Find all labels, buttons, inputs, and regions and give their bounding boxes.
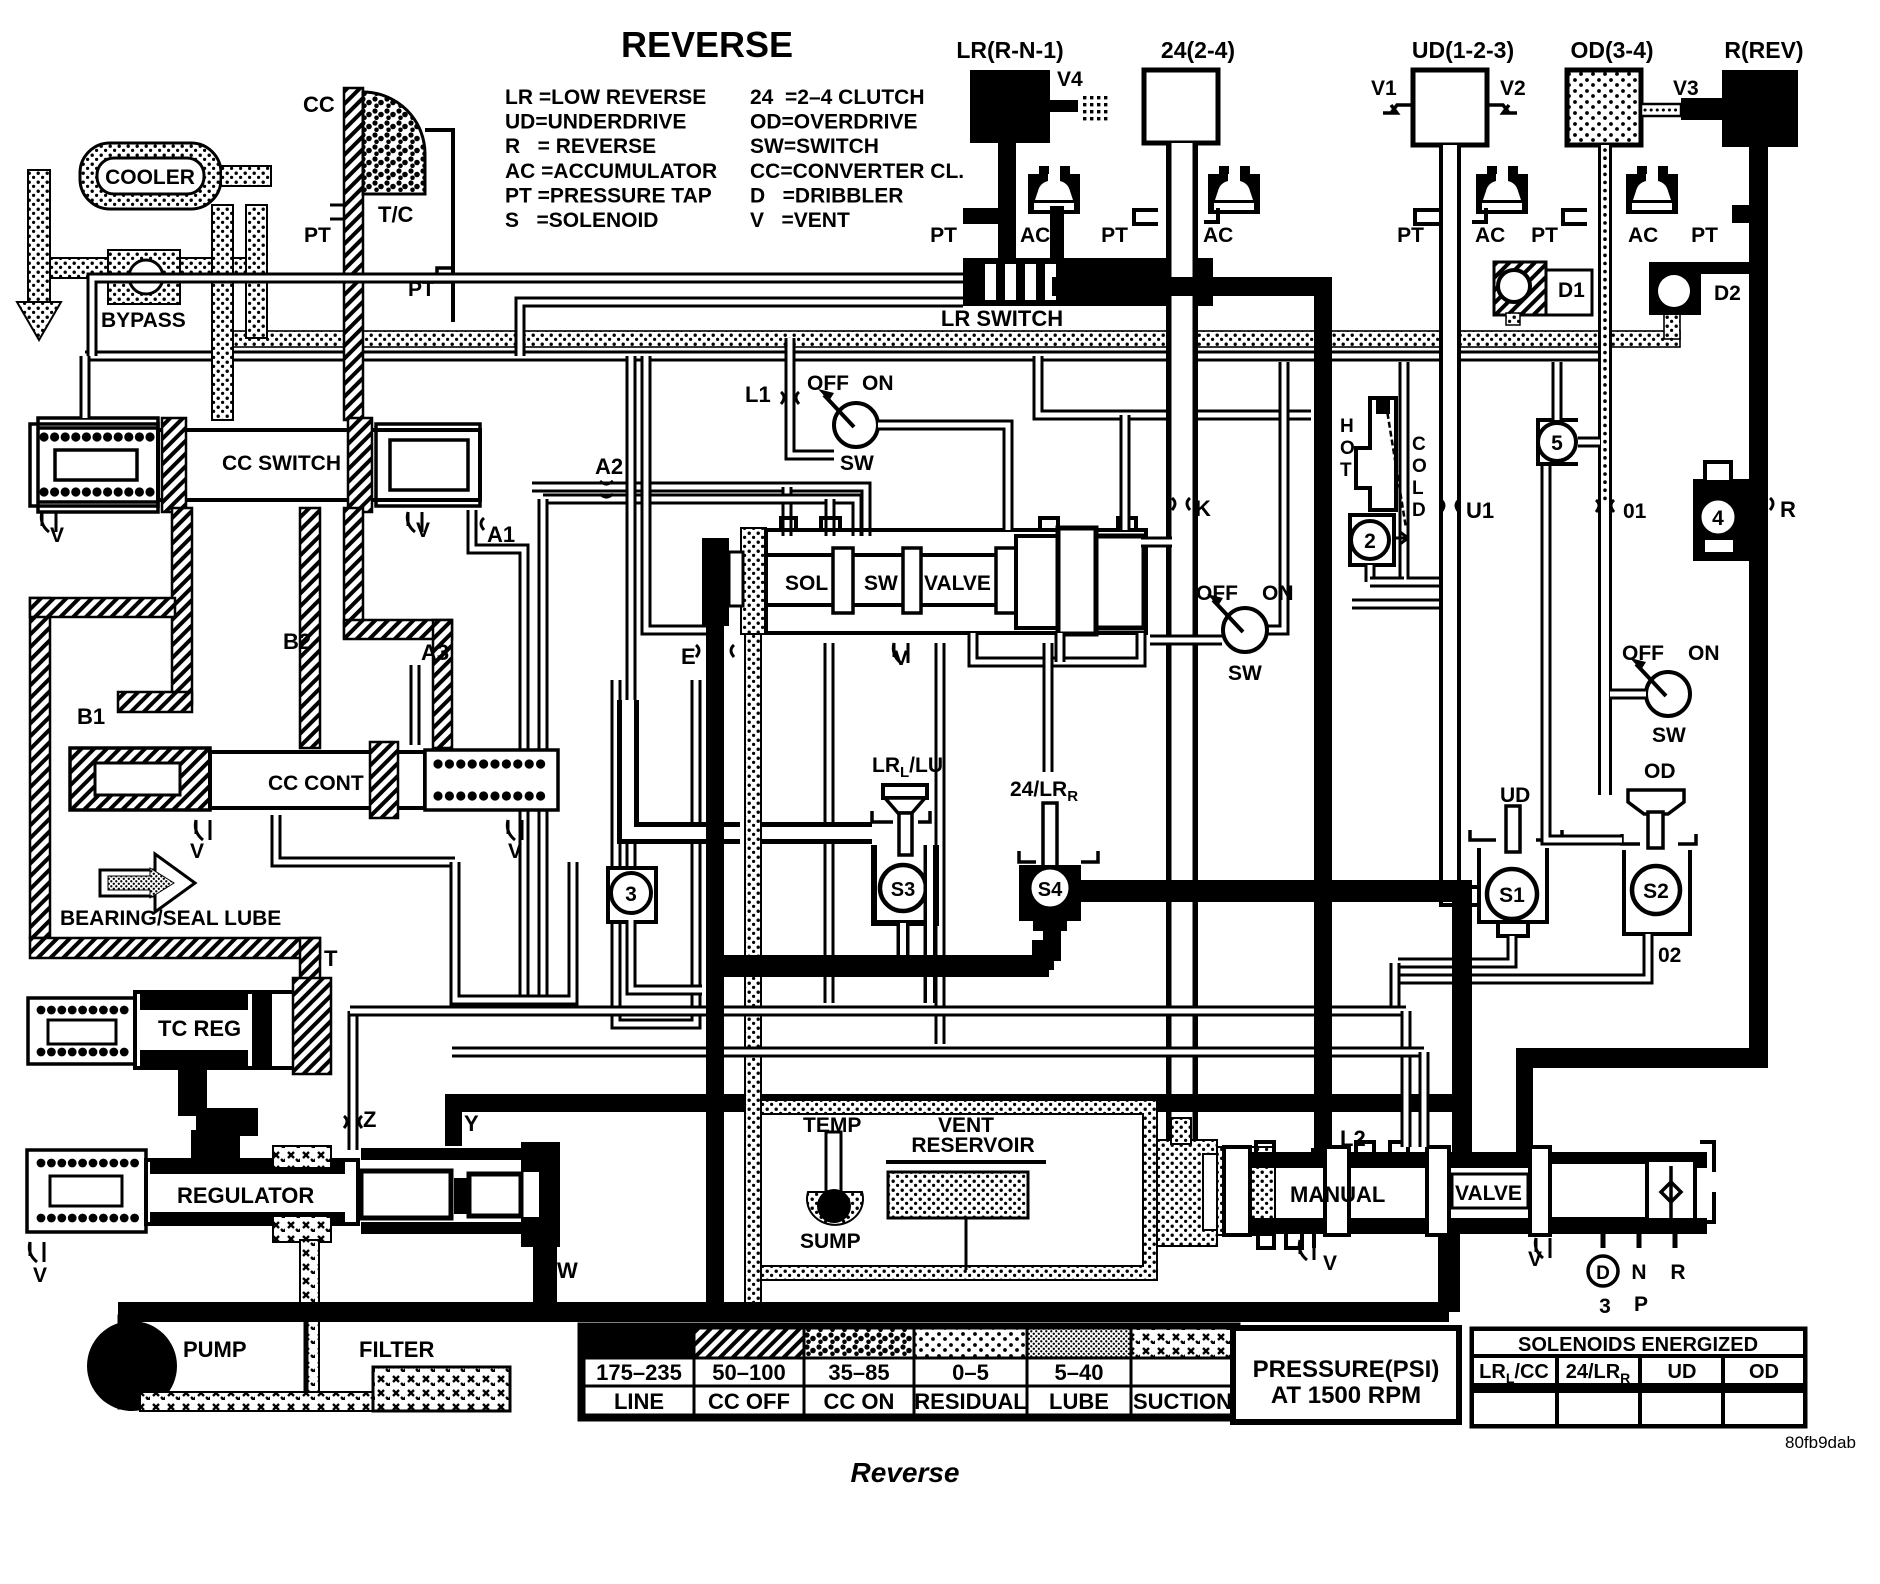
wire main line thin channel H1	[85, 351, 1609, 362]
manual valve bottom vents	[1258, 1234, 1314, 1248]
stipple vertical line (converter feed)	[741, 528, 766, 634]
svg-text:01: 01	[1623, 500, 1647, 523]
stipple elbow to D2	[1664, 313, 1680, 339]
svg-text:CC CONT: CC CONT	[268, 772, 364, 795]
svg-text:V: V	[416, 519, 430, 542]
svg-text:T: T	[324, 946, 338, 971]
svg-text:R = REVERSE: R = REVERSE	[505, 135, 656, 158]
regulator suction x-ports	[273, 1146, 331, 1168]
svg-text:S2: S2	[1643, 880, 1669, 903]
svg-text:E: E	[681, 644, 696, 669]
svg-text:RESIDUAL: RESIDUAL	[914, 1389, 1026, 1414]
svg-text:PT: PT	[1691, 224, 1718, 247]
wire S4 to manual valve	[1078, 880, 1462, 902]
svg-text:02: 02	[1658, 944, 1681, 967]
svg-text:5–40: 5–40	[1055, 1360, 1104, 1385]
wire left end channel	[80, 356, 91, 418]
port 5 circled	[1538, 420, 1578, 464]
svg-text:V =VENT: V =VENT	[750, 209, 850, 232]
svg-text:ON: ON	[1688, 642, 1720, 665]
valve MANUAL VALVE	[1217, 1147, 1275, 1235]
svg-text:PRESSURE(PSI): PRESSURE(PSI)	[1253, 1356, 1440, 1383]
wire channel H2	[1038, 356, 1311, 415]
svg-text:2: 2	[1364, 530, 1376, 553]
vent V (CC CONT left)	[195, 820, 210, 840]
suction pipe vertical	[300, 1240, 319, 1398]
svg-text:OD=OVERDRIVE: OD=OVERDRIVE	[750, 111, 917, 134]
solenoid plunger	[729, 552, 743, 606]
hatch pipe to CC CONT	[300, 508, 320, 748]
svg-text:50–100: 50–100	[712, 1360, 785, 1385]
pump	[120, 1317, 306, 1407]
gear positions D N R 3 P L	[1603, 1228, 1675, 1248]
accumulator symbol	[1476, 166, 1528, 214]
sump right stipple arm	[1157, 1140, 1217, 1246]
svg-text:PT: PT	[1397, 224, 1424, 247]
wire LR stem thick	[998, 143, 1016, 268]
svg-text:LR(R-N-1): LR(R-N-1)	[956, 37, 1063, 63]
node Y leg	[445, 1094, 462, 1146]
svg-text:CC ON: CC ON	[824, 1389, 895, 1414]
cooler pipe right vertical stipples	[212, 205, 233, 420]
wire regulator feed Y horizontal	[449, 1094, 1460, 1112]
svg-text:3: 3	[625, 883, 637, 906]
vent V (regulator)	[29, 1242, 44, 1262]
svg-text:FILTER: FILTER	[359, 1337, 434, 1362]
hatch pipe to B1	[172, 508, 192, 704]
svg-text:4: 4	[1712, 507, 1724, 530]
cooler	[80, 143, 221, 209]
valve CC CONT	[70, 748, 210, 810]
svg-text:SUCTION: SUCTION	[1133, 1389, 1232, 1414]
svg-text:S1: S1	[1499, 884, 1525, 907]
hatch pipe left tall	[30, 598, 50, 938]
svg-text:35–85: 35–85	[828, 1360, 889, 1385]
svg-text:CC=CONVERTER CL.: CC=CONVERTER CL.	[750, 160, 964, 183]
svg-text:ON: ON	[1262, 582, 1294, 605]
svg-text:LRL/CC: LRL/CC	[1479, 1361, 1549, 1386]
svg-text:SW: SW	[1228, 662, 1262, 685]
svg-text:PT: PT	[930, 224, 957, 247]
svg-text:W: W	[557, 1258, 578, 1283]
svg-text:AC: AC	[1628, 224, 1658, 247]
port 2 circled	[1350, 515, 1394, 565]
wire CC CONT out channel	[276, 815, 455, 862]
svg-text:OD: OD	[1749, 1361, 1779, 1383]
wire AC to LR switch connector	[1050, 206, 1064, 264]
svg-text:BEARING/SEAL LUBE: BEARING/SEAL LUBE	[60, 907, 281, 930]
accumulator symbol	[1208, 166, 1260, 214]
svg-text:LUBE: LUBE	[1049, 1389, 1109, 1414]
pressure tap PT (OD)	[1563, 210, 1587, 224]
cooler pipe left vertical stipple	[28, 170, 50, 302]
svg-text:Z: Z	[363, 1107, 376, 1132]
wire R line elbow to manual valve	[1516, 1048, 1768, 1068]
svg-text:PUMP: PUMP	[183, 1337, 247, 1362]
svg-text:A1: A1	[487, 522, 515, 547]
svg-text:S4: S4	[1038, 879, 1063, 901]
pressure legend table	[580, 1325, 1238, 1419]
svg-text:SW=SWITCH: SW=SWITCH	[750, 135, 879, 158]
svg-text:OD(3-4): OD(3-4)	[1570, 37, 1653, 63]
wire riser to H2	[1120, 415, 1131, 530]
pressure tap PT (24)	[1134, 210, 1158, 224]
svg-text:REGULATOR: REGULATOR	[177, 1183, 314, 1208]
wire channel to LR switch lower	[520, 302, 963, 356]
svg-text:TC REG: TC REG	[158, 1016, 241, 1041]
port 4 circled black box	[1693, 479, 1768, 561]
lube stipple main line	[212, 331, 1680, 347]
pressure tap PT (R)	[1732, 205, 1750, 223]
svg-text:REVERSE: REVERSE	[621, 24, 793, 65]
svg-text:SW: SW	[864, 572, 898, 595]
vent V (CC SWITCH left)	[41, 512, 56, 532]
svg-text:OD: OD	[1644, 760, 1676, 783]
T/C outline and PT taps	[425, 130, 453, 322]
thermal valve HOT COLD	[1356, 398, 1396, 510]
svg-text:24(2-4): 24(2-4)	[1161, 37, 1235, 63]
wire E bar and vertical	[702, 538, 729, 626]
wire thick vertical main right	[1314, 277, 1332, 1155]
wire S3 feed channels	[628, 700, 740, 833]
svg-text:3: 3	[1599, 1295, 1611, 1318]
svg-text:K: K	[1195, 496, 1211, 521]
wire UD stem channel	[1450, 145, 1481, 896]
svg-text:UD: UD	[1500, 784, 1530, 807]
svg-text:UD=UNDERDRIVE: UD=UNDERDRIVE	[505, 111, 686, 134]
suction pipe horizontal	[140, 1392, 380, 1411]
svg-text:RESERVOIR: RESERVOIR	[911, 1134, 1034, 1157]
wire line pressure from LR switch to right	[1052, 277, 1332, 296]
svg-text:R(REV): R(REV)	[1724, 37, 1803, 63]
svg-text:PT: PT	[304, 224, 331, 247]
pressure tap PT (LR)	[963, 208, 1015, 224]
svg-text:R: R	[1780, 497, 1796, 522]
hatch pipe to T	[30, 938, 320, 958]
svg-text:D =DRIBBLER: D =DRIBBLER	[750, 184, 903, 207]
pressure tap PT (UD)	[1415, 210, 1439, 224]
svg-text:B2: B2	[283, 629, 311, 654]
valve REGULATOR	[27, 1150, 146, 1232]
svg-text:Y: Y	[464, 1111, 479, 1136]
wire A2 horizontal channels	[532, 487, 866, 536]
svg-text:A2: A2	[595, 454, 623, 479]
wire S2 feed from dial	[1546, 462, 1622, 840]
svg-text:UD: UD	[1668, 1361, 1697, 1383]
wire channel to LR switch upper	[92, 278, 963, 356]
svg-text:C: C	[1412, 434, 1426, 455]
svg-text:A3: A3	[421, 640, 449, 665]
svg-text:0–5: 0–5	[952, 1360, 989, 1385]
solenoids energized table	[1472, 1329, 1805, 1426]
accumulator symbol	[1028, 166, 1080, 214]
wire S4 feed channel	[1043, 643, 1054, 772]
bypass line stipple	[50, 258, 262, 278]
svg-text:5: 5	[1551, 432, 1563, 455]
torque converter T/C	[363, 92, 425, 194]
svg-text:V: V	[50, 524, 64, 547]
svg-text:O: O	[1340, 438, 1355, 459]
svg-text:O: O	[1412, 456, 1427, 477]
svg-text:V1: V1	[1371, 77, 1397, 100]
wire channel H3 right	[1141, 537, 1172, 548]
svg-text:PT: PT	[1101, 224, 1128, 247]
pressure psi box	[1233, 1328, 1459, 1422]
svg-text:LINE: LINE	[614, 1389, 664, 1414]
wire OD stem dotted channel	[1598, 145, 1612, 505]
dribbler D1	[1494, 262, 1546, 315]
svg-text:S3: S3	[891, 879, 915, 901]
svg-text:SOLENOIDS ENERGIZED: SOLENOIDS ENERGIZED	[1518, 1334, 1758, 1356]
vent V (sol valve)	[893, 643, 908, 663]
svg-text:MANUAL: MANUAL	[1290, 1182, 1385, 1207]
svg-text:V: V	[1528, 1248, 1542, 1271]
svg-text:VALVE: VALVE	[1455, 1182, 1522, 1205]
wire S4 to E vertical	[709, 955, 1049, 977]
svg-text:PT =PRESSURE TAP: PT =PRESSURE TAP	[505, 184, 712, 207]
svg-text:LR =LOW REVERSE: LR =LOW REVERSE	[505, 86, 706, 109]
valve under loop channel	[973, 633, 1141, 662]
svg-text:V2: V2	[1500, 77, 1526, 100]
svg-text:U1: U1	[1466, 498, 1494, 523]
wire A1 channel	[472, 510, 524, 1000]
vent V (CC CONT right)	[507, 820, 522, 840]
port 3 circled	[608, 868, 656, 922]
valve right spool lands	[1016, 536, 1058, 628]
svg-text:LR SWITCH: LR SWITCH	[941, 306, 1063, 331]
svg-text:SW: SW	[1652, 724, 1686, 747]
svg-text:CC: CC	[303, 92, 335, 117]
wire line pressure bus bottom	[118, 1302, 1449, 1322]
wire D2 to R line	[1701, 262, 1767, 274]
switch LR SWITCH	[963, 258, 1213, 306]
svg-text:80fb9dab: 80fb9dab	[1785, 1433, 1856, 1452]
sump reservoir box stipple border	[747, 1100, 1157, 1280]
svg-text:R: R	[1670, 1261, 1685, 1284]
svg-text:CC SWITCH: CC SWITCH	[222, 452, 341, 475]
svg-text:T: T	[1340, 460, 1352, 481]
svg-text:UD(1-2-3): UD(1-2-3)	[1412, 37, 1514, 63]
switch SW dial 2 with OFF ON	[1268, 362, 1284, 630]
svg-text:175–235: 175–235	[596, 1360, 682, 1385]
wire 24 stem channel	[1166, 143, 1198, 1147]
svg-text:AT 1500 RPM: AT 1500 RPM	[1271, 1382, 1421, 1409]
regulator boost section	[361, 1171, 451, 1218]
svg-text:24 =2–4 CLUTCH: 24 =2–4 CLUTCH	[750, 86, 924, 109]
svg-text:L2: L2	[1340, 1126, 1366, 1151]
svg-text:D1: D1	[1558, 279, 1585, 302]
svg-text:SW: SW	[840, 452, 874, 475]
svg-text:D: D	[1596, 1263, 1610, 1284]
manual valve right spool	[1550, 1162, 1650, 1219]
svg-text:VALVE: VALVE	[924, 572, 991, 595]
hatch pipe B2	[344, 508, 363, 638]
node W leg	[533, 1247, 557, 1309]
svg-text:V: V	[508, 840, 522, 863]
svg-text:V: V	[1323, 1252, 1337, 1275]
svg-text:S =SOLENOID: S =SOLENOID	[505, 209, 658, 232]
svg-text:BYPASS: BYPASS	[101, 309, 186, 332]
svg-text:V: V	[894, 647, 908, 670]
bearing seal lube arrow	[100, 854, 195, 912]
cooler return arrow	[17, 302, 61, 340]
valve TC REG	[28, 998, 135, 1064]
svg-text:D: D	[1412, 500, 1426, 521]
dribbler D2	[1649, 262, 1701, 315]
wire channels below valve	[824, 643, 835, 1003]
wire channels mid horizontals	[350, 1006, 1406, 1017]
wire TC REG to regulator black link	[178, 1054, 207, 1116]
wire channel from 2 to UD line	[1370, 577, 1404, 588]
svg-text:D2: D2	[1714, 282, 1741, 305]
svg-text:V3: V3	[1673, 77, 1699, 100]
channel U loop 2	[616, 680, 696, 1024]
svg-text:N: N	[1631, 1261, 1646, 1284]
svg-text:AC: AC	[1020, 224, 1050, 247]
svg-text:Reverse: Reverse	[851, 1457, 960, 1488]
svg-text:V: V	[33, 1264, 47, 1287]
vent V (CC SWITCH right)	[407, 512, 422, 532]
svg-text:ON: ON	[862, 372, 894, 395]
svg-text:SOL: SOL	[785, 572, 828, 595]
bypass valve	[108, 250, 180, 304]
svg-text:AC: AC	[1203, 224, 1233, 247]
channel U loop 1	[455, 862, 573, 1000]
svg-text:B1: B1	[77, 704, 105, 729]
svg-text:SUMP: SUMP	[800, 1230, 861, 1253]
svg-text:L1: L1	[745, 382, 771, 407]
wire thick overlay re-stamp	[1314, 277, 1332, 1148]
svg-text:H: H	[1340, 416, 1354, 437]
svg-text:COOLER: COOLER	[105, 166, 195, 189]
svg-text:V4: V4	[1057, 68, 1083, 91]
svg-text:V: V	[190, 840, 204, 863]
accumulator symbol	[1626, 166, 1678, 214]
svg-text:AC: AC	[1475, 224, 1505, 247]
valve SOL SW VALVE body	[766, 530, 1146, 633]
wire A2 vertical channels	[626, 356, 637, 872]
svg-text:AC =ACCUMULATOR: AC =ACCUMULATOR	[505, 160, 717, 183]
svg-text:P: P	[1634, 1293, 1648, 1316]
manual valve top ports	[1256, 1142, 1408, 1152]
wire R stem thick line	[1749, 147, 1768, 1068]
wire L1 channel	[790, 338, 834, 455]
valve CC SWITCH	[38, 418, 158, 512]
svg-text:L: L	[1412, 478, 1424, 499]
valve top ports	[781, 518, 1136, 530]
svg-text:PT: PT	[1531, 224, 1558, 247]
svg-text:CC OFF: CC OFF	[708, 1389, 790, 1414]
svg-text:T/C: T/C	[378, 202, 414, 227]
